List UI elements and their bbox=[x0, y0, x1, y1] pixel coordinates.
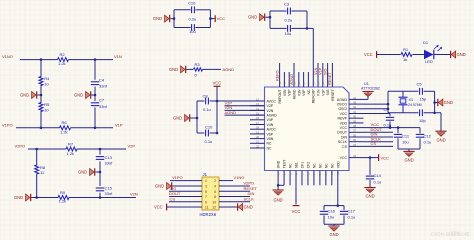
svg-text:37: 37 bbox=[353, 129, 357, 133]
svg-text:1.2k: 1.2k bbox=[58, 61, 66, 66]
svg-text:VCC: VCC bbox=[340, 156, 348, 160]
capacitor C10 0.1u (lower) bbox=[205, 130, 207, 137]
svg-text:39: 39 bbox=[353, 119, 357, 123]
svg-text:V2PO: V2PO bbox=[244, 181, 255, 186]
svg-text:VCC: VCC bbox=[340, 126, 348, 130]
svg-text:1.2k: 1.2k bbox=[59, 199, 67, 204]
svg-text:C3: C3 bbox=[284, 2, 290, 7]
svg-text:1k: 1k bbox=[403, 57, 407, 62]
wire R1 to LED bbox=[413, 54, 425, 56]
svg-text:15p: 15p bbox=[419, 118, 426, 123]
wire VCC to R1 bbox=[377, 54, 401, 56]
svg-text:0.1u: 0.1u bbox=[374, 179, 382, 184]
svg-text:V1N: V1N bbox=[314, 67, 318, 75]
svg-text:RESET: RESET bbox=[328, 72, 332, 85]
svg-text:10u: 10u bbox=[285, 31, 292, 36]
svg-text:10: 10 bbox=[212, 200, 216, 204]
svg-text:GND: GND bbox=[404, 158, 413, 163]
svg-text:R9: R9 bbox=[60, 190, 66, 195]
resistor R7 1.2k bbox=[66, 147, 77, 151]
svg-text:22: 22 bbox=[256, 144, 260, 148]
svg-text:V5P: V5P bbox=[302, 89, 306, 96]
svg-text:10: 10 bbox=[44, 81, 49, 86]
svg-text:GND: GND bbox=[277, 160, 281, 168]
capacitor C15 33nf bbox=[96, 187, 104, 189]
svg-text:SEL: SEL bbox=[295, 162, 299, 169]
svg-text:DIN: DIN bbox=[341, 135, 348, 139]
svg-text:OSCO: OSCO bbox=[337, 103, 348, 107]
svg-text:C8: C8 bbox=[203, 94, 209, 99]
svg-text:15: 15 bbox=[256, 112, 260, 116]
net label V2PO (J1) bbox=[219, 185, 250, 187]
svg-text:REFOUT: REFOUT bbox=[278, 90, 282, 104]
capacitor C4 33nf bbox=[91, 81, 99, 83]
svg-text:16: 16 bbox=[256, 116, 260, 120]
svg-text:0.1u: 0.1u bbox=[203, 107, 211, 112]
junction dots V2 block bbox=[35, 148, 38, 151]
svg-text:8: 8 bbox=[214, 195, 216, 199]
svg-text:TEST: TEST bbox=[283, 160, 287, 169]
svg-text:DOUT: DOUT bbox=[337, 131, 348, 135]
svg-text:GND: GND bbox=[173, 116, 182, 121]
wire V1 left vertical bbox=[40, 60, 42, 77]
svg-text:VCC: VCC bbox=[381, 155, 390, 160]
capacitor C7 33nf bbox=[91, 102, 99, 104]
svg-text:33nf: 33nf bbox=[99, 104, 108, 109]
svg-text:11: 11 bbox=[205, 206, 209, 210]
svg-text:10u: 10u bbox=[328, 214, 335, 219]
svg-text:1.2k: 1.2k bbox=[67, 151, 75, 156]
ground earth (crystal caps) bbox=[435, 130, 446, 132]
chip bottom pins bbox=[277, 171, 279, 186]
net label DIN wire bbox=[364, 136, 394, 138]
svg-text:14: 14 bbox=[256, 107, 260, 111]
wire V1NO row bbox=[20, 59, 58, 61]
resistor R4 10 bbox=[39, 77, 43, 86]
capacitor 10u (bottom of C3 block) bbox=[287, 25, 289, 32]
svg-text:GND: GND bbox=[244, 205, 253, 210]
svg-text:V5N: V5N bbox=[283, 89, 287, 96]
chip right pin VCC lower bbox=[349, 157, 364, 159]
svg-text:12: 12 bbox=[256, 97, 260, 101]
capacitor C16 C17 loop wires bbox=[324, 205, 344, 207]
svg-text:VCC: VCC bbox=[292, 209, 301, 214]
svg-text:SIG: SIG bbox=[323, 68, 327, 75]
capacitor C3 block wires bbox=[270, 10, 287, 12]
svg-text:REFO: REFO bbox=[275, 70, 279, 81]
svg-text:NC: NC bbox=[312, 163, 316, 168]
svg-text:C17: C17 bbox=[348, 208, 356, 213]
svg-text:C10: C10 bbox=[188, 0, 196, 5]
chip left pins bbox=[250, 100, 265, 102]
svg-text:13: 13 bbox=[256, 102, 260, 106]
svg-text:1.2k: 1.2k bbox=[60, 129, 68, 134]
svg-text:LED: LED bbox=[425, 59, 433, 64]
junction dots V1 block bbox=[40, 58, 43, 61]
svg-text:AVCC: AVCC bbox=[267, 128, 277, 132]
net label SCLK wire bbox=[364, 141, 394, 143]
svg-text:9: 9 bbox=[205, 200, 207, 204]
svg-text:R2: R2 bbox=[60, 52, 66, 57]
wire V2 right vertical bbox=[99, 149, 101, 155]
svg-text:SCLK: SCLK bbox=[338, 140, 348, 144]
svg-text:C13: C13 bbox=[105, 155, 113, 160]
svg-text:GND: GND bbox=[274, 198, 283, 203]
capacitor C3 bbox=[287, 8, 289, 15]
net label DIN (J1) bbox=[219, 196, 250, 198]
svg-text:R5: R5 bbox=[44, 102, 50, 107]
svg-text:33nf: 33nf bbox=[105, 160, 114, 165]
svg-text:V1NO: V1NO bbox=[2, 54, 13, 59]
chip top pins bbox=[279, 63, 281, 87]
svg-text:17: 17 bbox=[256, 121, 260, 125]
svg-text:VDD: VDD bbox=[336, 161, 340, 169]
wire GND to R3 bbox=[186, 68, 193, 70]
svg-text:V4N: V4N bbox=[267, 123, 274, 127]
connector J1 HDR2X6 body bbox=[202, 177, 219, 210]
svg-text:V4P: V4P bbox=[267, 118, 274, 122]
svg-text:40: 40 bbox=[353, 115, 357, 119]
svg-text:12: 12 bbox=[212, 206, 216, 210]
svg-text:V1P: V1P bbox=[321, 89, 325, 96]
svg-text:V1P: V1P bbox=[115, 122, 123, 127]
svg-text:C12: C12 bbox=[424, 133, 432, 138]
junction dots C10 block bbox=[173, 17, 176, 20]
svg-text:4: 4 bbox=[214, 185, 216, 189]
svg-text:GND: GND bbox=[78, 170, 87, 175]
svg-text:SCLK: SCLK bbox=[244, 196, 255, 201]
capacitor C17 0.1u bbox=[340, 210, 348, 212]
svg-text:V6P: V6P bbox=[267, 132, 274, 136]
capacitor C16 10u bbox=[320, 210, 328, 212]
svg-text:RESET: RESET bbox=[331, 90, 335, 101]
crystal X1 24.576M bbox=[399, 96, 408, 98]
svg-text:GND: GND bbox=[20, 93, 29, 98]
ground GND (crystal right) bbox=[437, 99, 439, 106]
svg-text:R4: R4 bbox=[44, 76, 50, 81]
ground GND (J1 pin12) bbox=[219, 206, 237, 208]
svg-text:HDR2X6: HDR2X6 bbox=[200, 212, 217, 217]
capacitor C13 33nf bbox=[96, 156, 104, 158]
svg-text:CS: CS bbox=[342, 145, 348, 149]
svg-text:33: 33 bbox=[353, 154, 357, 158]
svg-text:VCC: VCC bbox=[364, 52, 373, 57]
wire V2PO row bbox=[28, 148, 66, 150]
net label CS wire bbox=[364, 145, 394, 147]
svg-text:35: 35 bbox=[353, 138, 357, 142]
capacitor C8 0.1u bbox=[205, 98, 207, 105]
svg-text:AGND: AGND bbox=[293, 89, 297, 99]
svg-text:CF1: CF1 bbox=[300, 162, 304, 169]
svg-text:0.1u: 0.1u bbox=[348, 214, 356, 219]
svg-text:33nf: 33nf bbox=[105, 191, 114, 196]
svg-text:GND: GND bbox=[74, 93, 83, 98]
svg-text:0.1u: 0.1u bbox=[205, 139, 213, 144]
svg-text:V1PO: V1PO bbox=[172, 175, 183, 180]
crystal network wires bbox=[364, 103, 389, 105]
svg-text:R8: R8 bbox=[40, 165, 46, 170]
svg-text:24.576M: 24.576M bbox=[408, 103, 422, 107]
svg-text:V2N: V2N bbox=[267, 109, 274, 113]
ground earth (chip GND pin) bbox=[277, 185, 279, 190]
ground earth (C14) bbox=[364, 187, 375, 189]
svg-text:ATT7022B2: ATT7022B2 bbox=[361, 86, 380, 90]
svg-text:V3P: V3P bbox=[288, 89, 292, 96]
svg-text:CF2: CF2 bbox=[306, 162, 310, 169]
resistor R6 1.2k bbox=[60, 126, 71, 130]
svg-text:REFCAP: REFCAP bbox=[312, 89, 316, 103]
svg-text:V1P: V1P bbox=[319, 67, 323, 75]
wire VCC rail (VDD pin) bbox=[364, 127, 421, 129]
svg-text:42: 42 bbox=[353, 105, 357, 109]
svg-text:C7: C7 bbox=[99, 98, 105, 103]
resistor R3 0 ohm bbox=[194, 68, 203, 71]
svg-text:U1: U1 bbox=[364, 82, 369, 86]
net label V1NO (J1) bbox=[219, 180, 233, 182]
wire LED to GND bbox=[434, 54, 450, 56]
svg-text:C4: C4 bbox=[99, 77, 105, 82]
power VCC (above C8) bbox=[214, 85, 221, 87]
svg-text:GND: GND bbox=[436, 138, 445, 143]
capacitor C12 0.1u bbox=[419, 128, 421, 134]
svg-text:VDD: VDD bbox=[340, 121, 348, 125]
svg-text:20: 20 bbox=[256, 135, 260, 139]
net label SCLK (J1) bbox=[219, 201, 250, 203]
svg-text:J1: J1 bbox=[203, 172, 208, 177]
svg-text:19: 19 bbox=[256, 130, 260, 134]
svg-text:V2PO: V2PO bbox=[15, 144, 26, 149]
svg-text:44: 44 bbox=[353, 96, 357, 100]
wire VDD pin down bbox=[337, 185, 339, 205]
LED D1 bbox=[424, 50, 434, 59]
svg-text:SIG: SIG bbox=[326, 89, 330, 95]
svg-text:5: 5 bbox=[205, 190, 207, 194]
svg-text:SIG: SIG bbox=[170, 186, 177, 191]
svg-text:V2P: V2P bbox=[267, 104, 274, 108]
ground earth (C11 C12) bbox=[398, 148, 420, 150]
svg-text:R7: R7 bbox=[68, 141, 74, 146]
svg-text:V1N: V1N bbox=[114, 54, 122, 59]
svg-text:CS: CS bbox=[170, 196, 176, 201]
capacitor C10 block wires bbox=[174, 9, 191, 11]
svg-text:10u: 10u bbox=[189, 29, 196, 34]
svg-text:OSCI: OSCI bbox=[338, 107, 347, 111]
net label DOUT wire bbox=[364, 131, 394, 133]
svg-text:V2P: V2P bbox=[128, 144, 136, 149]
svg-text:RESET: RESET bbox=[244, 186, 258, 191]
svg-text:REVP: REVP bbox=[337, 117, 347, 121]
wire C3 block to REFCAP pin bbox=[307, 27, 313, 29]
svg-text:C5: C5 bbox=[417, 82, 423, 87]
svg-text:AVCC: AVCC bbox=[267, 99, 277, 103]
svg-text:36: 36 bbox=[353, 133, 357, 137]
svg-text:R3: R3 bbox=[195, 62, 201, 67]
svg-text:21: 21 bbox=[256, 140, 260, 144]
svg-text:C10: C10 bbox=[205, 125, 213, 130]
svg-text:C15: C15 bbox=[105, 185, 113, 190]
svg-text:18: 18 bbox=[256, 126, 260, 130]
svg-text:GND: GND bbox=[153, 16, 162, 21]
resistor R8 11 bbox=[35, 165, 39, 174]
svg-text:C16: C16 bbox=[328, 208, 336, 213]
svg-text:0.2u: 0.2u bbox=[189, 17, 197, 22]
svg-text:VCC: VCC bbox=[340, 112, 348, 116]
svg-text:R1: R1 bbox=[403, 47, 409, 52]
resistor R1 1k bbox=[401, 53, 412, 57]
svg-text:NC: NC bbox=[267, 142, 273, 146]
svg-text:1: 1 bbox=[205, 179, 207, 183]
svg-text:GND: GND bbox=[444, 100, 453, 105]
svg-text:7: 7 bbox=[205, 195, 207, 199]
svg-text:C14: C14 bbox=[374, 173, 382, 178]
svg-text:V3N: V3N bbox=[297, 89, 301, 96]
svg-text:GND: GND bbox=[457, 52, 466, 57]
capacitor 10u (bottom of C10 block) bbox=[191, 24, 193, 31]
wire R3 to AGND label bbox=[203, 68, 222, 70]
svg-text:NC: NC bbox=[267, 146, 273, 150]
resistor R5 10 bbox=[39, 103, 43, 112]
power VCC (right of C10 block) bbox=[214, 15, 216, 22]
resistor R9 1.2k bbox=[58, 196, 69, 200]
svg-text:0.1u: 0.1u bbox=[424, 140, 432, 145]
capacitor C10 bbox=[191, 6, 193, 13]
svg-text:43: 43 bbox=[353, 101, 357, 105]
wires C8 C10 block bbox=[216, 86, 218, 133]
svg-text:NC: NC bbox=[330, 163, 334, 168]
capacitor C14 0.1u bbox=[369, 158, 371, 175]
svg-text:D1: D1 bbox=[423, 40, 429, 45]
svg-text:NC: NC bbox=[318, 163, 322, 168]
svg-text:GND: GND bbox=[169, 67, 178, 72]
wire V2N row bbox=[31, 197, 58, 199]
net label RESET (J1) bbox=[219, 190, 250, 192]
svg-text:6: 6 bbox=[214, 190, 216, 194]
capacitor C9 0.1u bbox=[364, 113, 391, 115]
svg-text:10u: 10u bbox=[402, 140, 409, 145]
svg-text:GND: GND bbox=[365, 194, 374, 199]
resistor R2 1.2k bbox=[58, 58, 69, 62]
wire V1 right vertical bbox=[94, 60, 96, 80]
svg-text:CS: CS bbox=[371, 141, 377, 146]
svg-text:NC: NC bbox=[289, 163, 293, 168]
svg-text:V1N: V1N bbox=[317, 89, 321, 96]
svg-text:41: 41 bbox=[353, 110, 357, 114]
svg-text:V1NO: V1NO bbox=[234, 175, 245, 180]
svg-text:GND: GND bbox=[155, 184, 164, 189]
wire V2 left vertical bbox=[36, 149, 38, 166]
op-amp U1 ATT7022B2 body bbox=[265, 87, 350, 171]
svg-text:GND: GND bbox=[248, 15, 257, 20]
svg-text:NC: NC bbox=[324, 163, 328, 168]
svg-text:V2N: V2N bbox=[130, 192, 138, 197]
wire V1PO row bbox=[16, 127, 60, 129]
capacitor C5 15p bbox=[419, 88, 421, 95]
svg-text:V1PO: V1PO bbox=[2, 122, 13, 127]
ground earth (AGND pin / U1) bbox=[364, 98, 369, 100]
svg-text:X1: X1 bbox=[409, 98, 414, 102]
svg-text:15p: 15p bbox=[420, 97, 427, 102]
svg-text:V6N: V6N bbox=[267, 137, 274, 141]
svg-text:R6: R6 bbox=[62, 120, 68, 125]
chip right pins bbox=[349, 98, 364, 100]
svg-text:38: 38 bbox=[353, 124, 357, 128]
ground earth (C16 C17) bbox=[333, 224, 335, 226]
svg-text:C11: C11 bbox=[402, 133, 410, 138]
svg-text:0.2u: 0.2u bbox=[285, 18, 293, 23]
svg-text:AGND: AGND bbox=[225, 110, 237, 115]
capacitor C6 15p bbox=[419, 109, 421, 116]
svg-text:AGND: AGND bbox=[267, 114, 278, 118]
svg-text:GND: GND bbox=[14, 195, 23, 200]
svg-text:VCC: VCC bbox=[217, 16, 226, 21]
power VCC (pin 33 row) bbox=[364, 157, 379, 159]
svg-text:AGND: AGND bbox=[337, 98, 348, 102]
wire GND TEST pins join bbox=[278, 184, 284, 186]
svg-text:3: 3 bbox=[205, 185, 207, 189]
svg-text:AGND: AGND bbox=[223, 67, 235, 72]
svg-text:DOUT: DOUT bbox=[169, 191, 181, 196]
svg-text:AGND: AGND bbox=[290, 74, 294, 85]
svg-text:VCC: VCC bbox=[213, 81, 222, 86]
svg-text:10: 10 bbox=[44, 107, 49, 112]
svg-text:C9: C9 bbox=[384, 107, 390, 112]
svg-text:VCC: VCC bbox=[154, 205, 163, 210]
ground GND (LED) bbox=[450, 51, 452, 58]
svg-text:NC: NC bbox=[307, 89, 311, 94]
svg-text:33nf: 33nf bbox=[99, 84, 108, 89]
power VCC (SEL pin) bbox=[295, 185, 297, 204]
svg-text:DIN: DIN bbox=[248, 191, 255, 196]
svg-text:34: 34 bbox=[353, 143, 357, 147]
capacitor C11 10u bbox=[397, 128, 399, 134]
svg-text:GND: GND bbox=[329, 232, 338, 237]
svg-text:2: 2 bbox=[214, 179, 216, 183]
